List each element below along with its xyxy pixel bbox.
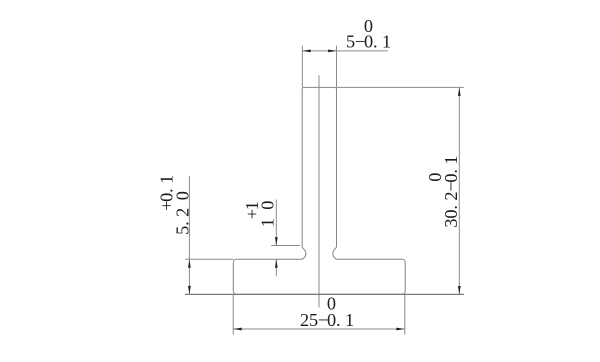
bottom dimension line (25 -0.1) — [233, 328, 404, 330]
centerline — [318, 75, 320, 307]
stem-top extension to right dim — [337, 86, 464, 88]
extension line left of top dim — [301, 46, 303, 88]
left dim text 5.2 0 rotated — [172, 191, 192, 235]
flange-top extension line to left dim — [185, 258, 233, 260]
arrow left-dim up — [188, 260, 191, 268]
arrow bottom-dim right — [396, 328, 404, 331]
left dimension line (5.2 +0.1/0) — [188, 176, 190, 294]
arrow small-dim down (upper) — [275, 237, 278, 245]
T-profile outline — [233, 87, 405, 294]
bottom datum extension line — [185, 293, 464, 295]
left dim tolerance +0.1 rotated — [156, 175, 176, 211]
arrow top-dim left — [302, 50, 310, 53]
small dim upper segment (1 +1/0) — [275, 200, 277, 246]
bottom-left extension line — [232, 294, 234, 334]
svg-text:0: 0 — [327, 293, 336, 313]
small dim lower segment — [275, 259, 277, 276]
svg-text:+0.1: +0.1 — [156, 175, 176, 211]
arrow bottom-dim left — [233, 328, 241, 331]
arrow right-dim up — [458, 88, 461, 96]
arrow top-dim right — [328, 50, 336, 53]
top dimension line (5 -0.1) — [302, 50, 388, 52]
bottom-right extension line — [404, 294, 406, 334]
small dim text 1 0 rotated — [257, 201, 277, 228]
extension line right of top dim — [336, 46, 338, 88]
right dim text 30.2-0.1 rotated — [441, 155, 461, 227]
arrow left-dim down — [188, 286, 191, 294]
svg-text:0: 0 — [364, 16, 373, 36]
arrow right-dim down — [458, 286, 461, 294]
small dim tolerance +1 rotated — [242, 201, 262, 219]
small dim extension line — [271, 245, 300, 247]
svg-text:+1: +1 — [242, 201, 262, 219]
right dimension line (30.2 -0.1) — [458, 88, 460, 295]
svg-text:0: 0 — [425, 173, 445, 182]
right dim tolerance 0 rotated — [425, 173, 445, 182]
arrow small-dim up (lower) — [275, 259, 278, 267]
svg-text:30.2−0.1: 30.2−0.1 — [441, 155, 461, 227]
